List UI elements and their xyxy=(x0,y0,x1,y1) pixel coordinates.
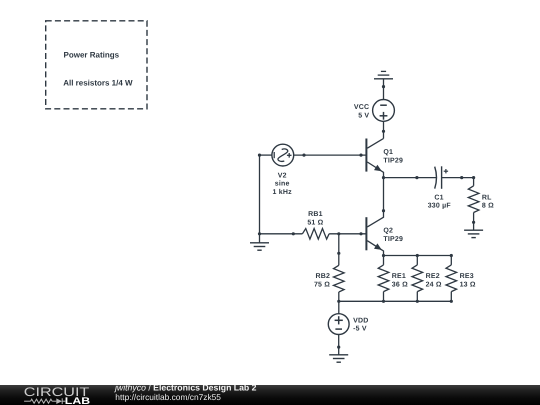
footer bar xyxy=(0,385,540,405)
wire V2 corner down to base row xyxy=(259,155,261,234)
svg-text:RE1: RE1 xyxy=(392,273,406,280)
svg-text:Q1: Q1 xyxy=(383,149,393,156)
node: VCC bottom terminal xyxy=(382,130,385,133)
wire RB2 branch down xyxy=(338,234,340,265)
node: C1 right terminal xyxy=(460,176,463,179)
transistor Q1 xyxy=(366,139,383,178)
svg-text:RE2: RE2 xyxy=(426,273,440,280)
wire RL top lead xyxy=(473,178,475,186)
svg-text:8 Ω: 8 Ω xyxy=(482,203,494,210)
svg-text:V2: V2 xyxy=(278,172,287,179)
node: V2 right terminal xyxy=(302,154,305,157)
wire RL bottom lead xyxy=(473,213,475,231)
resistor RB1 51ohm xyxy=(302,229,329,240)
svg-text:36 Ω: 36 Ω xyxy=(392,281,408,288)
node: left ground corner xyxy=(258,232,261,235)
resistor RE3 13ohm xyxy=(446,256,457,302)
node: V2 left corner xyxy=(258,154,261,157)
wire base row left xyxy=(260,233,303,235)
annotation dashed box xyxy=(46,21,147,109)
svg-text:TIP29: TIP29 xyxy=(383,236,403,243)
ground (top, inverted, above VCC) xyxy=(374,71,393,99)
ground (left, below V2 corner) xyxy=(250,234,269,250)
voltage source VCC 5V xyxy=(373,100,395,122)
node: RE1 bottom xyxy=(382,300,385,303)
resistor RE1 36ohm xyxy=(378,256,389,302)
svg-text:VDD: VDD xyxy=(353,317,368,324)
resistor RL 8ohm xyxy=(468,186,479,213)
node: Q1 emitter junction xyxy=(382,176,385,179)
wire V2 left to corner xyxy=(260,154,272,156)
wire Q2 emitter bus (top RE bus) xyxy=(384,255,452,257)
wire emitter row to C1 xyxy=(384,177,437,179)
node: RB1/RB2 T-junction xyxy=(337,232,340,235)
node: Q2 collector junction xyxy=(382,209,385,212)
node: Q2 base terminal xyxy=(359,232,362,235)
svg-text:75 Ω: 75 Ω xyxy=(314,281,330,288)
svg-text:RB1: RB1 xyxy=(308,211,323,218)
node: Q1 base terminal xyxy=(359,154,362,157)
resistor RB2 75ohm xyxy=(334,265,345,292)
wire Q1 emitter to Q2 collector xyxy=(383,178,385,211)
voltage source VDD -5V xyxy=(328,314,349,335)
svg-text:1 kHz: 1 kHz xyxy=(273,188,293,196)
svg-text:Q2: Q2 xyxy=(383,228,393,235)
wire RB2 bottom to bus xyxy=(338,292,340,301)
svg-text:RE3: RE3 xyxy=(460,273,474,280)
wire VCC to Q1 collector xyxy=(383,121,385,138)
wire C1 right to RL corner xyxy=(442,177,474,179)
node: RL top corner xyxy=(472,176,475,179)
wire V2 right to Q1 base xyxy=(294,154,367,156)
resistor RE2 24ohm xyxy=(412,256,423,302)
node: RE3 bottom xyxy=(450,300,453,303)
svg-text:RL: RL xyxy=(482,195,492,202)
svg-text:VCC: VCC xyxy=(354,104,369,111)
wire bottom bus xyxy=(339,300,452,302)
node: RE2 bottom xyxy=(416,300,419,303)
node: C1 left terminal xyxy=(415,176,418,179)
transistor Q2 xyxy=(366,211,383,256)
svg-text:330 µF: 330 µF xyxy=(428,202,452,209)
wire bus to VDD xyxy=(338,301,340,314)
svg-text:All resistors 1/4 W: All resistors 1/4 W xyxy=(63,79,133,88)
node: RE2 top xyxy=(416,254,419,257)
logo resistor+diode xyxy=(24,398,65,404)
wire VDD to ground xyxy=(338,335,340,355)
voltage source V2 (sine) xyxy=(272,144,294,166)
node: bus/RB2/VDD junction xyxy=(337,300,340,303)
svg-text:13 Ω: 13 Ω xyxy=(460,281,476,288)
svg-text:RB2: RB2 xyxy=(315,273,330,280)
svg-text:sine: sine xyxy=(275,180,290,188)
capacitor C1 330uF polarized xyxy=(435,166,448,189)
node: VDD bottom terminal xyxy=(337,346,340,349)
svg-text:LAB: LAB xyxy=(65,396,90,405)
svg-text:C1: C1 xyxy=(434,195,443,202)
svg-text:TIP29: TIP29 xyxy=(383,157,403,164)
node: VCC top terminal xyxy=(382,85,385,88)
svg-text:Power Ratings: Power Ratings xyxy=(64,50,120,59)
node: RB2 top terminal xyxy=(337,252,340,255)
svg-text:51 Ω: 51 Ω xyxy=(307,219,323,226)
ground (below VDD) xyxy=(329,355,348,362)
svg-text:24 Ω: 24 Ω xyxy=(426,281,442,288)
svg-text:http://circuitlab.com/cn7zk55: http://circuitlab.com/cn7zk55 xyxy=(115,392,221,402)
node: RE1 top xyxy=(382,254,385,257)
node: RE3 top xyxy=(450,254,453,257)
ground (below RL) xyxy=(464,230,483,237)
wire RB1 right to Q2 base xyxy=(329,233,366,235)
node: RB1 left terminal xyxy=(292,232,295,235)
svg-text:-5 V: -5 V xyxy=(353,326,367,333)
svg-text:5 V: 5 V xyxy=(358,113,369,120)
node: RL bottom terminal xyxy=(472,221,475,224)
